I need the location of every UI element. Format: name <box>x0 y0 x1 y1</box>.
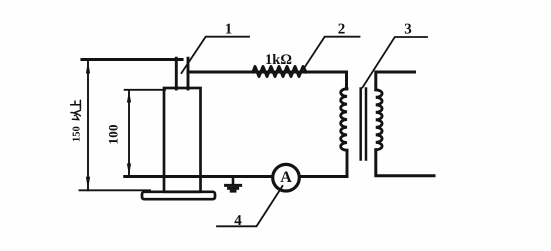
specimen base plate electrode <box>142 192 215 199</box>
svg-text:A: A <box>280 169 292 186</box>
svg-text:4: 4 <box>234 213 242 229</box>
transformer core <box>361 89 366 160</box>
dimension 150以上 arrows <box>86 61 90 190</box>
svg-text:3: 3 <box>404 22 412 38</box>
leader line for label 1 <box>182 37 250 73</box>
ground <box>226 177 241 192</box>
wire top HV lead <box>82 58 182 61</box>
wire bottom return (left of ammeter) <box>125 175 273 178</box>
wire primary top: resistor to transformer <box>188 72 347 89</box>
transformer T (component 3) primary winding <box>341 89 347 151</box>
glyph 上 <box>71 100 81 109</box>
svg-text:1: 1 <box>225 22 233 38</box>
resistor R 1kΩ (component 2) <box>253 67 306 77</box>
svg-text:2: 2 <box>338 22 346 38</box>
specimen cylinder body <box>164 88 201 192</box>
leader line for label 2 <box>305 37 360 68</box>
electrode 1 (needle electrode holder) <box>176 58 188 89</box>
svg-text:150: 150 <box>72 126 83 142</box>
wire secondary output bottom <box>376 150 434 176</box>
dimension text 150以上 (rotated, 以上 drawn as strokes) <box>71 100 83 142</box>
glyph 以 <box>71 110 80 119</box>
svg-text:100: 100 <box>106 124 121 144</box>
dimension text 100 (rotated) <box>106 124 121 144</box>
svg-text:1kΩ: 1kΩ <box>265 52 292 68</box>
dimension 100 line <box>125 90 165 176</box>
wire ammeter to transformer <box>299 175 347 178</box>
dimension 100 arrows <box>127 91 131 175</box>
transformer secondary winding <box>376 90 382 150</box>
dimension 150以上 line <box>80 60 151 190</box>
ammeter A (component 4) <box>273 164 300 191</box>
leader line for label 3 <box>363 37 428 88</box>
wire secondary output top <box>376 72 415 90</box>
leader line for label 4 <box>217 186 283 226</box>
wire primary bottom stub <box>346 150 349 176</box>
